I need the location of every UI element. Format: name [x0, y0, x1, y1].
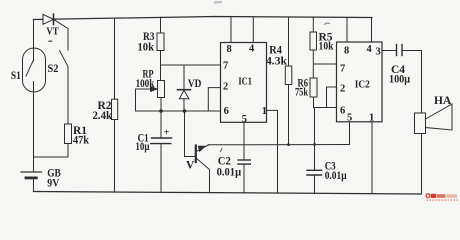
wire IC2 pin 1 to ground [371, 122, 373, 194]
svg-text:V: V [186, 160, 195, 172]
wire IC2 pin2 branch [327, 87, 337, 108]
svg-text:4: 4 [249, 44, 255, 55]
diode VT cathode bar [53, 14, 55, 24]
resistor R5 body [310, 32, 317, 50]
svg-text:S2: S2 [48, 63, 59, 75]
wire R3 to RP [160, 51, 162, 81]
wire node line pins 2 and 6 of IC2 [314, 107, 337, 109]
node junction dot C1 [159, 109, 163, 113]
stray faint smudge top [215, 1, 221, 4]
svg-text:0.01μ: 0.01μ [325, 170, 347, 182]
wire IC1 pin2 branch [208, 88, 220, 111]
svg-text:8: 8 [344, 46, 349, 57]
svg-text:7: 7 [340, 64, 345, 75]
wire IC1 pin 4 to rail [252, 17, 254, 43]
junction dot R4 emitter [287, 143, 290, 146]
wire R3 top [160, 17, 162, 33]
svg-text:2: 2 [223, 82, 228, 93]
node junction dot VD [183, 109, 187, 113]
capacitor C4 plates [396, 45, 398, 56]
wire R1 bottom [34, 144, 69, 158]
wire top rail [34, 17, 373, 20]
potentiometer RP wiper arrow [136, 88, 153, 90]
wire RP wiper down to node [135, 89, 137, 111]
wire IC2 pin 8 to rail [346, 17, 348, 42]
svg-text:6: 6 [340, 106, 345, 117]
wire bottom rail [34, 192, 422, 195]
svg-text:6: 6 [224, 106, 229, 117]
svg-text:VT: VT [46, 27, 58, 38]
svg-text:1: 1 [369, 113, 374, 124]
diode VD cathode bar [178, 89, 191, 91]
capacitor C2 plates [238, 159, 250, 161]
svg-text:7: 7 [223, 61, 228, 72]
svg-text:2: 2 [340, 84, 345, 95]
wire IC1 pin 5 down [243, 122, 245, 160]
wire node to IC1 pin 7 [161, 64, 221, 66]
watermark text block strong [431, 194, 437, 198]
battery GB short thick plate [26, 176, 36, 179]
wire battery to bottom rail [33, 179, 35, 192]
svg-text:VD: VD [188, 78, 202, 90]
wire C4 to speaker [402, 51, 422, 114]
svg-text:IC2: IC2 [355, 78, 370, 90]
svg-text:5: 5 [242, 114, 247, 125]
svg-text:1: 1 [262, 106, 267, 117]
svg-text:47k: 47k [73, 135, 90, 147]
diode VT triangle [43, 14, 54, 24]
wire IC2 pin 5 down to emitter line [349, 122, 351, 145]
wire node down to transistor base [185, 111, 196, 157]
svg-text:3: 3 [376, 47, 381, 58]
capacitor C1 plates [152, 137, 172, 139]
speaker HA body [415, 113, 426, 134]
potentiometer RP body [158, 81, 165, 98]
svg-text:+: + [164, 127, 170, 138]
resistor R1 body [65, 124, 72, 144]
junction dot C3 emitter crossing [313, 143, 316, 146]
svg-text:2.4k: 2.4k [93, 110, 113, 122]
svg-text:10k: 10k [138, 42, 155, 54]
svg-text:9V: 9V [47, 177, 60, 189]
capacitor C1 lead [160, 111, 162, 138]
wire VD top [183, 65, 185, 90]
wire IC2 pin 4 to rail [371, 18, 373, 43]
wire R4 top [288, 17, 290, 66]
resistor R3 body [157, 33, 164, 51]
transistor V collector lead down [196, 158, 210, 193]
wire speaker to bottom rail [421, 134, 423, 195]
svg-text:75k: 75k [295, 87, 308, 99]
wire emitter line to IC2 pin 5 [208, 144, 350, 146]
transistor V base bar [195, 146, 197, 163]
svg-text:IC1: IC1 [238, 75, 252, 87]
diode VD triangle [179, 90, 189, 98]
wire IC1 pin 1 to ground [267, 110, 278, 193]
switch S1 arm [26, 61, 33, 77]
wire R4 bottom to emitter line [288, 85, 290, 145]
wire to IC2 pin 7 [314, 63, 337, 65]
wire R5 top [312, 17, 314, 32]
capacitor C3 plates [307, 169, 322, 171]
wire C1 to bottom rail [160, 144, 162, 193]
wire IC1 pin 8 to rail [230, 17, 232, 43]
stray speck under VT [49, 40, 52, 42]
svg-text:100k: 100k [136, 78, 155, 90]
transistor V emitter arrow [198, 146, 205, 151]
IC1 box [221, 43, 267, 123]
transistor V emitter lead up [196, 145, 209, 152]
wire left vertical from top rail to S1 [33, 20, 35, 61]
switch S1 (tilt switch body) [23, 48, 46, 92]
wire node down to C3 [314, 108, 316, 171]
svg-text:10k: 10k [319, 41, 334, 53]
svg-text:8: 8 [227, 44, 232, 55]
wire node line pins 2 and 6 of IC1 [136, 110, 221, 112]
svg-text:HA: HA [434, 95, 452, 107]
wire R5 to R6 [312, 50, 314, 78]
resistor R6 body [310, 78, 317, 97]
wire R6 bottom [313, 97, 315, 108]
speaker HA horn [426, 104, 453, 130]
stray speck above C2 [221, 149, 223, 152]
svg-text:4: 4 [367, 44, 373, 55]
svg-text:0.01μ: 0.01μ [217, 167, 242, 179]
wire R2 bottom to rail [114, 120, 116, 193]
wire S1 to battery [33, 82, 35, 172]
IC2 box [337, 42, 383, 122]
svg-text:S1: S1 [11, 70, 21, 82]
switch S2 arm [60, 51, 69, 67]
wire R2 branch top [114, 18, 116, 99]
svg-text:100μ: 100μ [389, 74, 410, 86]
watermark logo circle [426, 194, 430, 198]
svg-text:5: 5 [347, 113, 352, 124]
svg-text:10μ: 10μ [135, 141, 149, 153]
svg-text:4.3k: 4.3k [266, 56, 288, 68]
resistor R4 body [285, 66, 292, 85]
wire C3 to bottom rail [314, 175, 316, 193]
wire IC2 pin 3 to C4 [382, 50, 397, 52]
watermark text block light [446, 194, 457, 197]
wire VD to node [183, 99, 185, 111]
wire RP bottom to node [160, 98, 162, 112]
stray mark near R5 [325, 23, 330, 24]
wire S2 to R1 [67, 67, 69, 124]
resistor R2 body [112, 99, 118, 119]
watermark text block medium [437, 194, 446, 198]
wire diode to S2 diagonal [54, 19, 69, 50]
wire C2 to bottom rail [243, 164, 245, 193]
battery GB long plate [21, 171, 42, 173]
watermark dash row [427, 199, 459, 200]
